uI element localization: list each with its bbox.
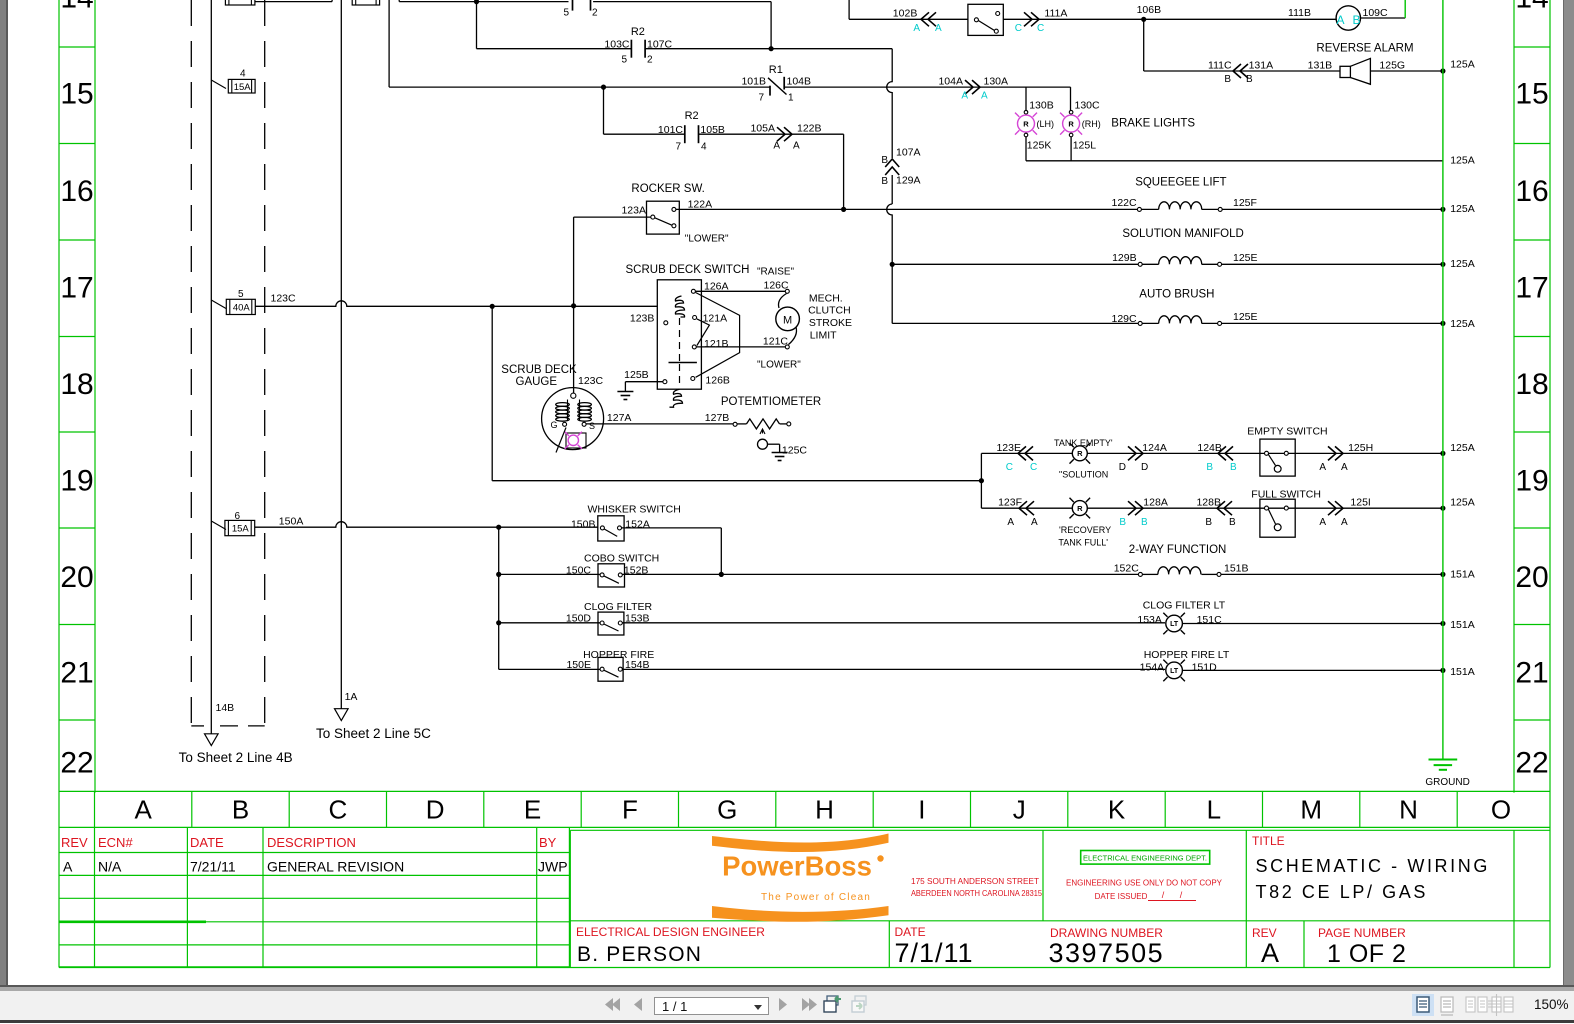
wire 152B row	[499, 573, 600, 575]
svg-text:111A: 111A	[1044, 8, 1067, 20]
svg-text:B: B	[881, 176, 888, 187]
title block frame	[569, 830, 571, 967]
svg-text:7: 7	[675, 142, 681, 153]
svg-text:HOPPER FIRE LT: HOPPER FIRE LT	[1144, 649, 1230, 661]
wire 123E row	[981, 452, 1443, 454]
connector 128A chevron	[1128, 501, 1136, 515]
svg-text:(LH): (LH)	[1037, 119, 1055, 129]
svg-text:ROCKER SW.: ROCKER SW.	[631, 183, 704, 195]
svg-text:EMPTY SWITCH: EMPTY SWITCH	[1247, 426, 1327, 438]
svg-text:125F: 125F	[1233, 197, 1257, 209]
svg-text:/: /	[1180, 890, 1183, 900]
svg-text:19: 19	[60, 465, 93, 498]
wire vertical 603 to R2b row	[603, 87, 605, 134]
fuse F2 top	[352, 0, 379, 5]
svg-text:5: 5	[563, 8, 569, 19]
svg-text:A: A	[793, 141, 800, 152]
wire 152A	[622, 527, 722, 529]
svg-text:B: B	[1352, 13, 1360, 27]
svg-text:125A: 125A	[1450, 203, 1475, 215]
lamp recovery R	[1072, 501, 1087, 516]
svg-text:151D: 151D	[1192, 661, 1218, 673]
svg-text:B: B	[1229, 517, 1236, 528]
connector 125H chevron	[1328, 446, 1336, 460]
svg-text:R2: R2	[631, 26, 645, 38]
svg-text:BRAKE LIGHTS: BRAKE LIGHTS	[1111, 118, 1195, 130]
wire vertical 771 to R2 row	[770, 2, 772, 49]
svg-text:R: R	[1077, 449, 1083, 458]
svg-text:175 SOUTH ANDERSON STREET: 175 SOUTH ANDERSON STREET	[911, 876, 1039, 886]
svg-text:126C: 126C	[764, 280, 790, 292]
svg-text:M: M	[1300, 795, 1322, 825]
svg-text:JWP: JWP	[538, 859, 568, 875]
svg-text:DATE: DATE	[190, 835, 224, 850]
wire 123A to gauge	[574, 216, 651, 218]
connector 128B chevron	[1224, 501, 1232, 515]
svg-text:/: /	[1162, 890, 1165, 900]
svg-text:A: A	[961, 91, 968, 102]
svg-text:CLUTCH: CLUTCH	[808, 305, 851, 317]
svg-text:ENGINEERING USE ONLY DO NOT CO: ENGINEERING USE ONLY DO NOT COPY	[1066, 879, 1223, 888]
scrub deck switch spring bottom	[670, 389, 683, 407]
svg-text:DATE ISSUED: DATE ISSUED	[1095, 892, 1148, 901]
wire 125G	[1370, 70, 1443, 72]
svg-text:2: 2	[592, 8, 598, 19]
svg-text:4: 4	[240, 69, 246, 80]
svg-text:125B: 125B	[624, 369, 649, 381]
arrow to sheet 2 line 5C	[335, 709, 349, 721]
svg-text:A: A	[935, 23, 942, 34]
ground 125C	[772, 452, 788, 454]
svg-text:152A: 152A	[625, 518, 650, 530]
node 125A reverse alarm	[1440, 68, 1445, 73]
wire 102B	[848, 0, 850, 19]
node 150A split	[496, 525, 501, 530]
svg-text:J: J	[1013, 795, 1026, 825]
wire 111C 131 row	[1143, 19, 1145, 71]
svg-text:22: 22	[60, 747, 93, 780]
green bus stub 109C	[1404, 0, 1406, 18]
coil solution manifold 129B	[1138, 262, 1142, 266]
svg-text:123F: 123F	[998, 497, 1022, 509]
svg-text:R2: R2	[685, 110, 699, 122]
svg-text:122B: 122B	[797, 123, 822, 135]
node 125A auto brush	[1440, 321, 1445, 326]
switch 102B-111A	[968, 4, 1003, 35]
svg-text:A: A	[1261, 938, 1279, 968]
connector 124A chevron	[1128, 446, 1136, 460]
svg-text:15: 15	[60, 78, 93, 111]
svg-text:128B: 128B	[1196, 497, 1221, 509]
svg-text:129C: 129C	[1111, 313, 1137, 325]
fuse F4 15A	[211, 80, 226, 89]
svg-text:124B: 124B	[1197, 442, 1222, 454]
svg-text:2: 2	[647, 55, 653, 66]
svg-text:19: 19	[1515, 465, 1548, 498]
revision table grid	[59, 852, 569, 854]
gauge armature	[567, 400, 569, 422]
svg-text:'RECOVERY: 'RECOVERY	[1059, 525, 1111, 535]
svg-text:125H: 125H	[1348, 442, 1373, 454]
connector 125I chevron	[1328, 501, 1336, 515]
svg-text:M: M	[783, 314, 792, 326]
svg-text:R: R	[1023, 119, 1029, 128]
node 125A full	[1440, 506, 1445, 511]
svg-text:21: 21	[60, 657, 93, 690]
svg-text:SQUEEGEE LIFT: SQUEEGEE LIFT	[1135, 176, 1226, 188]
node 125A solution	[1440, 262, 1445, 267]
svg-text:125A: 125A	[1450, 497, 1475, 509]
svg-text:107A: 107A	[896, 146, 921, 158]
svg-text:125A: 125A	[1450, 442, 1475, 454]
gauge lamp	[566, 433, 586, 448]
svg-text:1A: 1A	[345, 691, 358, 703]
svg-text:14B: 14B	[216, 702, 235, 714]
whisker switch	[598, 516, 624, 541]
svg-text:N: N	[1399, 795, 1418, 825]
svg-text:N/A: N/A	[98, 859, 122, 875]
border row-number column left	[58, 0, 60, 968]
wire 125F	[1222, 208, 1443, 210]
coil 2-way function 152C	[1138, 572, 1142, 576]
wire 153B row	[499, 622, 600, 624]
svg-text:B: B	[232, 795, 249, 825]
svg-text:D: D	[1141, 462, 1148, 473]
svg-text:153A: 153A	[1137, 614, 1162, 626]
wire 151D	[1183, 669, 1443, 671]
potentiometer wiper	[760, 429, 765, 434]
motor M mech clutch	[776, 307, 800, 331]
svg-text:106B: 106B	[1137, 4, 1162, 16]
svg-text:1 OF 2: 1 OF 2	[1327, 940, 1406, 968]
svg-text:L: L	[1207, 795, 1221, 825]
ground green bus	[1429, 759, 1458, 761]
lamp hopper fire LT	[1166, 662, 1183, 679]
svg-text:125A: 125A	[1450, 155, 1475, 167]
svg-text:7/1/11: 7/1/11	[895, 938, 974, 968]
wire 123F row	[981, 507, 1443, 509]
svg-text:123E: 123E	[996, 442, 1021, 454]
svg-text:R: R	[1077, 504, 1083, 513]
svg-text:A: A	[1336, 13, 1344, 27]
wire 129C row	[891, 322, 893, 325]
connector 123E chevron	[1025, 446, 1033, 460]
svg-text:14: 14	[1515, 0, 1548, 15]
svg-text:104B: 104B	[787, 76, 812, 88]
fuse F5 40A	[211, 300, 226, 309]
node 151A 2way	[1440, 572, 1445, 577]
svg-text:125K: 125K	[1027, 140, 1052, 152]
svg-text:ELECTRICAL DESIGN ENGINEER: ELECTRICAL DESIGN ENGINEER	[576, 925, 765, 939]
svg-text:T82 CE LP/ GAS: T82 CE LP/ GAS	[1256, 882, 1428, 902]
svg-text:LIMIT: LIMIT	[810, 330, 837, 342]
wire 125E solution	[1222, 263, 1443, 265]
svg-text:101C: 101C	[658, 124, 684, 136]
svg-text:G: G	[550, 420, 557, 430]
scrub deck gauge circle	[542, 388, 604, 450]
svg-text:125A: 125A	[1450, 59, 1475, 71]
svg-text:(RH): (RH)	[1082, 119, 1101, 129]
svg-text:130B: 130B	[1029, 99, 1054, 111]
svg-text:O: O	[1491, 795, 1511, 825]
svg-text:WHISKER SWITCH: WHISKER SWITCH	[588, 504, 681, 516]
svg-text:CLOG FILTER LT: CLOG FILTER LT	[1143, 599, 1226, 611]
svg-text:151A: 151A	[1450, 569, 1475, 581]
gauge terminals	[563, 422, 567, 426]
wire 154B row	[499, 668, 600, 670]
node 106B	[1141, 17, 1146, 22]
wire from fuse F1	[255, 1, 332, 3]
svg-text:K: K	[1108, 795, 1126, 825]
svg-text:102B: 102B	[893, 8, 918, 20]
empty switch	[1260, 439, 1295, 476]
svg-text:16: 16	[60, 175, 93, 208]
ground 125B	[617, 391, 633, 393]
fuse panel dashed border bottom	[191, 725, 204, 727]
svg-text:131A: 131A	[1249, 60, 1274, 72]
svg-text:127B: 127B	[705, 412, 730, 424]
wire 122A row	[676, 208, 1138, 210]
wire split to tank rows	[980, 453, 982, 508]
svg-text:B: B	[1141, 517, 1148, 528]
svg-text:125E: 125E	[1233, 311, 1258, 323]
svg-text:15A: 15A	[234, 82, 252, 93]
node 152 junction	[719, 572, 724, 577]
hopper fire switch	[598, 657, 623, 681]
svg-text:LT: LT	[1170, 621, 1179, 628]
svg-text:131B: 131B	[1308, 60, 1333, 72]
svg-text:STROKE: STROKE	[809, 317, 852, 329]
svg-text:A: A	[1319, 517, 1326, 528]
svg-text:123C: 123C	[271, 293, 297, 305]
node junction 476 top	[474, 0, 479, 4]
mech clutch hook top	[779, 294, 787, 309]
svg-text:The Power of Clean: The Power of Clean	[761, 892, 871, 903]
svg-text:CLOG FILTER: CLOG FILTER	[584, 601, 652, 613]
svg-text:151A: 151A	[1450, 666, 1475, 678]
svg-text:126B: 126B	[705, 375, 730, 387]
svg-text:17: 17	[1515, 272, 1548, 305]
wire 127A	[586, 423, 733, 425]
svg-text:A: A	[63, 859, 73, 875]
connector 102B chevron	[928, 12, 936, 26]
svg-text:123B: 123B	[630, 312, 655, 324]
svg-text:151B: 151B	[1224, 563, 1249, 575]
svg-text:121C: 121C	[763, 336, 789, 348]
svg-text:GAUGE: GAUGE	[516, 376, 558, 388]
svg-text:C: C	[329, 795, 348, 825]
svg-text:21: 21	[1515, 657, 1548, 690]
svg-text:5: 5	[238, 289, 244, 300]
svg-text:123A: 123A	[621, 205, 646, 217]
wire 151C	[1183, 623, 1443, 625]
svg-text:B: B	[881, 155, 888, 166]
wire R1 row	[389, 86, 770, 88]
svg-text:125G: 125G	[1379, 60, 1405, 72]
coil squeegee lift 122C	[1137, 207, 1141, 211]
svg-text:125L: 125L	[1073, 140, 1097, 152]
wire 126A to 126C	[696, 290, 786, 292]
svg-text:I: I	[918, 795, 925, 825]
svg-text:111C: 111C	[1208, 60, 1232, 72]
svg-text:COBO SWITCH: COBO SWITCH	[584, 552, 659, 564]
svg-text:AUTO BRUSH: AUTO BRUSH	[1139, 288, 1214, 300]
svg-text:B: B	[1224, 74, 1231, 85]
svg-text:121B: 121B	[704, 338, 729, 350]
arrow to sheet 2 line 4B	[205, 734, 219, 746]
svg-text:SCRUB DECK: SCRUB DECK	[501, 364, 577, 376]
node junction 603 R1 row	[601, 85, 606, 90]
svg-text:SCRUB DECK SWITCH: SCRUB DECK SWITCH	[626, 264, 750, 276]
lamp brake LH	[1024, 110, 1028, 114]
potentiometer 127B	[733, 422, 737, 426]
svg-text:SCHEMATIC - WIRING: SCHEMATIC - WIRING	[1256, 856, 1490, 876]
svg-text:16: 16	[1515, 175, 1548, 208]
connector 131A chevron	[1240, 64, 1248, 78]
svg-text:7/21/11: 7/21/11	[190, 859, 236, 875]
svg-text:130C: 130C	[1075, 99, 1101, 111]
svg-text:ECN#: ECN#	[98, 835, 133, 850]
PowerBoss logo swoosh bottom	[712, 906, 889, 922]
svg-text:A: A	[1031, 517, 1038, 528]
svg-text:104A: 104A	[938, 76, 963, 88]
node junction 129B	[890, 262, 895, 267]
svg-text:20: 20	[1515, 561, 1548, 594]
wire 151B	[1221, 573, 1443, 575]
wire 125B to ground	[625, 381, 663, 383]
wire 123C down and right	[491, 306, 493, 480]
node 125A squeegee	[1440, 207, 1445, 212]
svg-text:E: E	[524, 795, 541, 825]
wire 129B row	[892, 263, 1138, 265]
electrical engineering dept box	[1081, 851, 1210, 865]
connector 124B chevron	[1225, 446, 1233, 460]
svg-text:"RAISE": "RAISE"	[757, 267, 795, 278]
fuse panel dashed border right	[264, 0, 266, 726]
svg-text:14: 14	[60, 0, 93, 15]
svg-text:129B: 129B	[1112, 252, 1137, 264]
svg-text:22: 22	[1515, 747, 1548, 780]
svg-text:A: A	[1007, 517, 1014, 528]
svg-text:To Sheet 2 Line 5C: To Sheet 2 Line 5C	[316, 726, 431, 741]
svg-text:GENERAL REVISION: GENERAL REVISION	[267, 859, 404, 875]
svg-text:122A: 122A	[688, 199, 713, 211]
svg-text:A: A	[135, 795, 153, 825]
svg-text:DATE: DATE	[895, 925, 926, 939]
svg-text:"LOWER": "LOWER"	[685, 233, 729, 244]
node 151A hopper	[1440, 668, 1445, 673]
svg-text:18: 18	[1515, 368, 1548, 401]
scrub deck switch box	[657, 280, 701, 389]
node 123C to tank circuits	[490, 304, 495, 309]
svg-text:121A: 121A	[703, 312, 728, 324]
svg-text:3397505: 3397505	[1049, 938, 1165, 968]
gauge springs	[556, 403, 570, 407]
svg-text:125I: 125I	[1350, 497, 1370, 509]
connector 104A 130A	[965, 80, 973, 94]
svg-text:MECH.: MECH.	[809, 293, 843, 305]
scrub deck switch bar	[669, 362, 697, 364]
coil auto brush 129C	[1138, 321, 1142, 325]
svg-text:GROUND: GROUND	[1425, 777, 1469, 788]
scrub deck switch linkage	[696, 293, 740, 378]
svg-text:103C: 103C	[604, 39, 630, 51]
svg-text:To Sheet 2 Line 4B: To Sheet 2 Line 4B	[179, 750, 293, 765]
svg-text:151A: 151A	[1450, 619, 1475, 631]
fuse F1 15A top	[225, 0, 255, 5]
svg-text:5: 5	[621, 55, 627, 66]
svg-text:A: A	[981, 91, 988, 102]
PowerBoss registered dot	[877, 855, 883, 861]
svg-text:125C: 125C	[782, 445, 808, 457]
svg-text:BY: BY	[539, 835, 557, 850]
connector 123F chevron	[1026, 501, 1034, 515]
svg-text:R1: R1	[769, 64, 783, 76]
svg-text:ABERDEEN NORTH CAROLINA 28315: ABERDEEN NORTH CAROLINA 28315	[911, 888, 1042, 898]
svg-text:130A: 130A	[984, 76, 1009, 88]
wire 150 vertical distribution	[498, 527, 500, 669]
fuse panel dashed border left	[190, 0, 192, 726]
connector 111A chevron	[1024, 12, 1032, 26]
svg-text:125A: 125A	[1450, 258, 1475, 270]
svg-text:154A: 154A	[1140, 661, 1165, 673]
svg-text:A: A	[1341, 517, 1348, 528]
svg-text:150A: 150A	[279, 516, 304, 528]
svg-text:128A: 128A	[1143, 497, 1168, 509]
svg-text:SOLUTION MANIFOLD: SOLUTION MANIFOLD	[1122, 228, 1243, 240]
svg-text:R: R	[1068, 119, 1074, 128]
rocker switch	[647, 201, 680, 234]
svg-text:ELECTRICAL ENGINEERING DEPT.: ELECTRICAL ENGINEERING DEPT.	[1083, 854, 1207, 863]
svg-text:C: C	[1015, 23, 1022, 34]
node 125A empty	[1440, 451, 1445, 456]
wire top net from F2 area	[398, 0, 400, 2]
border row-number column right	[1549, 0, 1551, 968]
svg-text:105A: 105A	[750, 123, 775, 135]
svg-text:DESCRIPTION: DESCRIPTION	[267, 835, 356, 850]
svg-text:G: G	[717, 795, 737, 825]
svg-text:"LOWER": "LOWER"	[757, 360, 801, 371]
svg-text:A: A	[913, 23, 920, 34]
svg-text:REV: REV	[61, 835, 88, 850]
svg-text:A: A	[773, 141, 780, 152]
svg-text:REVERSE ALARM: REVERSE ALARM	[1316, 43, 1413, 55]
mech clutch hook bottom	[789, 327, 797, 345]
svg-text:B: B	[1230, 462, 1237, 473]
svg-text:S: S	[589, 421, 595, 431]
svg-text:124A: 124A	[1142, 442, 1167, 454]
wire 125K 125L return	[1025, 137, 1027, 161]
wire 125E auto brush	[1222, 322, 1443, 324]
svg-text:151C: 151C	[1197, 614, 1223, 626]
svg-text:101B: 101B	[741, 76, 766, 88]
node junction 771 R2 row	[769, 46, 774, 51]
wire 125C to ground	[768, 443, 780, 445]
svg-text:40A: 40A	[233, 303, 251, 314]
svg-text:123C: 123C	[578, 375, 604, 387]
svg-text:7: 7	[758, 93, 764, 104]
svg-text:125A: 125A	[1450, 318, 1475, 330]
svg-text:127A: 127A	[607, 412, 632, 424]
svg-text:129A: 129A	[896, 174, 921, 186]
svg-text:B. PERSON: B. PERSON	[577, 943, 702, 966]
svg-text:C: C	[1030, 462, 1037, 473]
svg-text:2-WAY FUNCTION: 2-WAY FUNCTION	[1129, 544, 1227, 556]
svg-text:C: C	[1006, 462, 1013, 473]
svg-text:TANK FULL': TANK FULL'	[1058, 537, 1108, 547]
svg-text:6: 6	[235, 511, 241, 522]
fuse F6 15A	[211, 521, 226, 530]
